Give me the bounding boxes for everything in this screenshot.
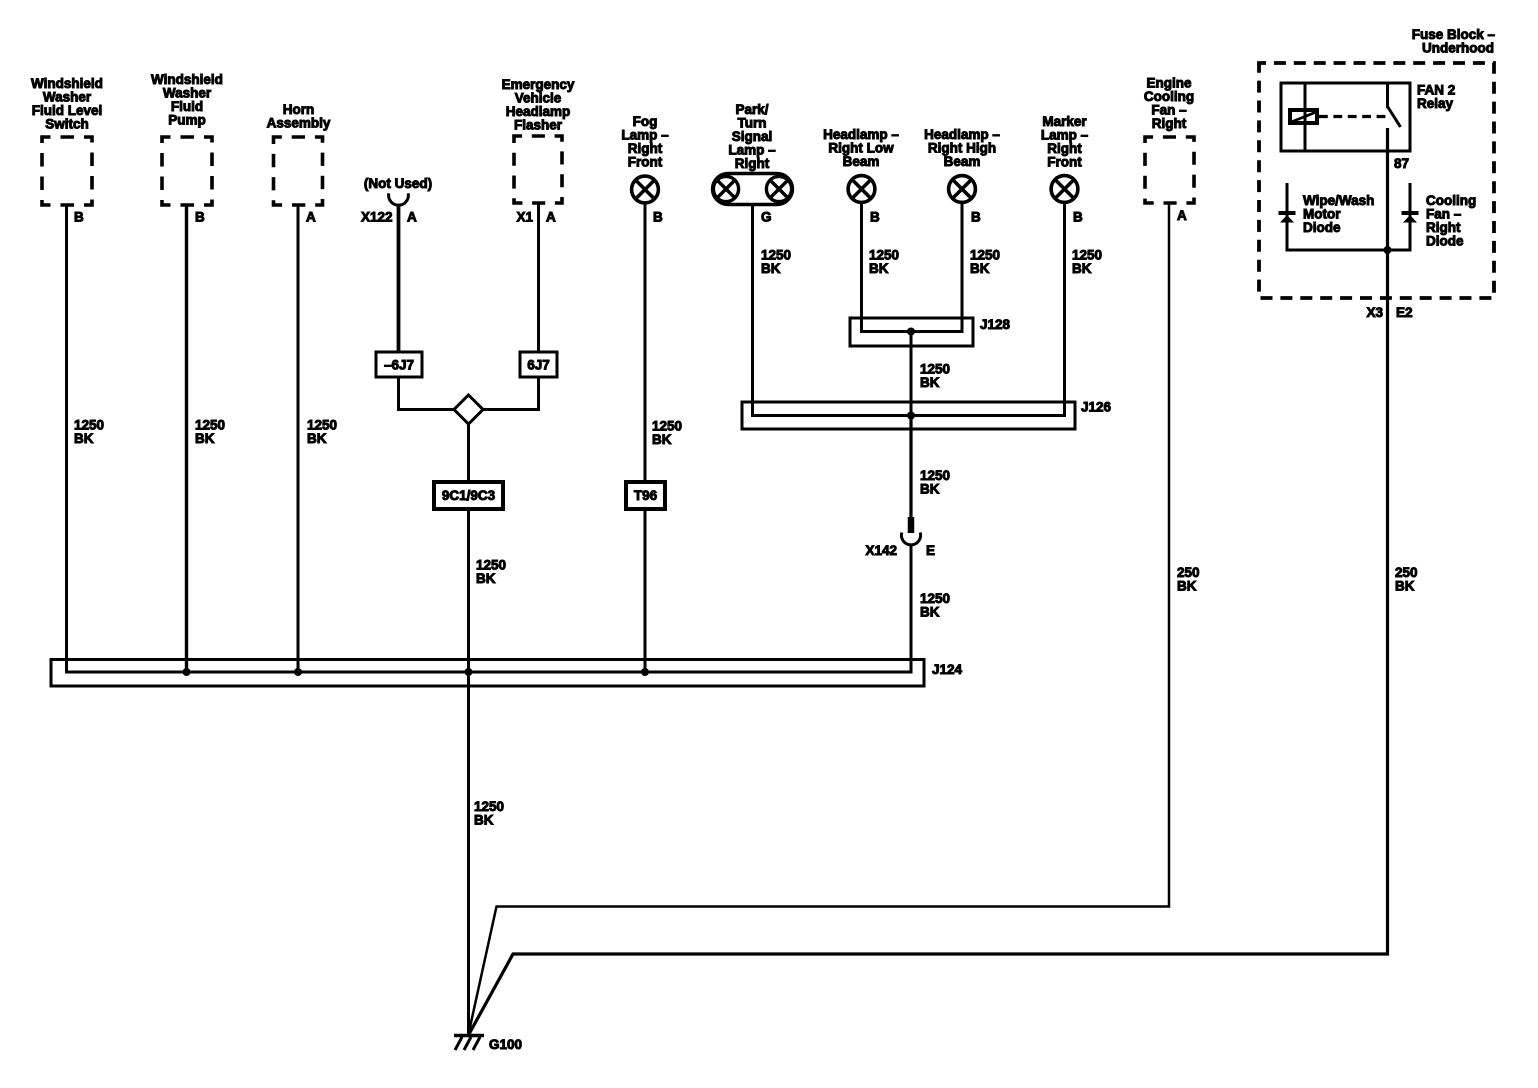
svg-text:B: B bbox=[870, 210, 880, 225]
svg-text:BK: BK bbox=[1395, 579, 1415, 594]
svg-text:Diode: Diode bbox=[1303, 220, 1341, 235]
connector X142 male blade bbox=[908, 517, 915, 533]
motor M2 Engine Cooling Fan box bbox=[1145, 137, 1194, 203]
svg-text:X3: X3 bbox=[1366, 305, 1383, 320]
svg-text:A: A bbox=[546, 210, 556, 225]
svg-text:6J7: 6J7 bbox=[527, 358, 550, 373]
lamp E4 Headlamp High Beam symbol bbox=[949, 176, 976, 203]
svg-text:A: A bbox=[306, 210, 316, 225]
switch S1 Windshield Washer Fluid Level Switch box bbox=[42, 137, 92, 205]
wire H1 pin A to J124 bbox=[297, 205, 300, 672]
connector X122 socket symbol bbox=[389, 193, 409, 205]
wire E2 pin G to J126 bbox=[751, 205, 754, 418]
svg-text:9C1/9C3: 9C1/9C3 bbox=[442, 488, 496, 503]
lamp E5 Marker Lamp symbol bbox=[1051, 176, 1078, 203]
svg-text:B: B bbox=[971, 210, 981, 225]
svg-text:G100: G100 bbox=[489, 1037, 522, 1052]
svg-text:(Not Used): (Not Used) bbox=[364, 176, 432, 191]
flasher U1 Emergency Vehicle Headlamp Flasher box bbox=[514, 136, 562, 203]
svg-text:B: B bbox=[1073, 210, 1083, 225]
motor M2 Engine Cooling Fan Right label bbox=[1144, 76, 1194, 132]
junction dot in J128 bbox=[907, 328, 915, 336]
motor M1 Windshield Washer Fluid Pump box bbox=[162, 137, 212, 205]
label FAN 2 Relay bbox=[1417, 83, 1455, 112]
wire E4 pin B to J128 bbox=[961, 204, 964, 334]
wire E3 pin B to J128 bbox=[860, 204, 863, 334]
wire E1 pin B to T96 bbox=[644, 204, 647, 482]
diode D1 symbol bbox=[1279, 211, 1296, 223]
svg-text:Diode: Diode bbox=[1426, 234, 1464, 249]
svg-text:BK: BK bbox=[652, 432, 672, 447]
svg-text:B: B bbox=[74, 210, 84, 225]
relay K1 coil bbox=[1290, 110, 1317, 123]
svg-text:Assembly: Assembly bbox=[267, 116, 331, 131]
junction dot J124 fog lamp bbox=[641, 668, 649, 676]
svg-text:Flasher: Flasher bbox=[514, 118, 563, 133]
svg-text:Right: Right bbox=[735, 156, 770, 171]
horn H1 Horn Assembly label bbox=[267, 102, 331, 131]
relay K1 FAN 2 Relay box bbox=[1281, 83, 1410, 151]
lamp E4 Headlamp Right High Beam label bbox=[924, 127, 1000, 169]
svg-text:B: B bbox=[195, 210, 205, 225]
connector X142 socket symbol bbox=[901, 533, 920, 545]
svg-text:X1: X1 bbox=[516, 210, 533, 225]
svg-text:BK: BK bbox=[920, 482, 940, 497]
wire label 1250 BK bbox=[474, 799, 504, 828]
svg-text:BK: BK bbox=[307, 431, 327, 446]
lamp E5 Marker Lamp Right Front label bbox=[1041, 114, 1089, 170]
lamp E3 Headlamp Low Beam symbol bbox=[848, 176, 875, 203]
wire 6J7 to diamond splice bbox=[482, 377, 539, 410]
label Cooling Fan Right Diode bbox=[1426, 193, 1476, 249]
svg-text:87: 87 bbox=[1394, 156, 1409, 171]
svg-text:BK: BK bbox=[474, 813, 494, 828]
svg-text:A: A bbox=[1177, 208, 1187, 223]
wire label 250 BK bbox=[1177, 565, 1200, 594]
svg-text:J126: J126 bbox=[1081, 400, 1112, 415]
junction dot in J126 bbox=[907, 412, 915, 420]
svg-text:BK: BK bbox=[74, 431, 94, 446]
ground G100 symbol bbox=[454, 1036, 484, 1051]
svg-text:Beam: Beam bbox=[843, 154, 880, 169]
svg-text:E2: E2 bbox=[1396, 305, 1413, 320]
wire label 1250 BK bbox=[195, 418, 225, 447]
wire label 1250 BK bbox=[869, 248, 899, 277]
wire label 1250 BK bbox=[74, 418, 104, 447]
svg-text:Front: Front bbox=[628, 155, 663, 170]
svg-text:A: A bbox=[407, 210, 417, 225]
junction dot at diode bus and relay wire bbox=[1384, 246, 1392, 254]
junction dot J124 horn bbox=[294, 668, 302, 676]
wire label 250 BK bbox=[1395, 565, 1418, 594]
motor M1 Windshield Washer Fluid Pump label bbox=[151, 72, 223, 128]
wire label 1250 BK bbox=[1072, 248, 1102, 277]
fuse block label Fuse Block - Underhood bbox=[1412, 27, 1496, 56]
fuse block underhood dashed enclosure bbox=[1259, 63, 1494, 298]
wire label 1250 BK bbox=[652, 419, 682, 448]
wire J128 to J126 bbox=[910, 332, 913, 418]
svg-text:Beam: Beam bbox=[944, 154, 981, 169]
flasher U1 Emergency Vehicle Headlamp Flasher label bbox=[502, 77, 575, 133]
svg-text:BK: BK bbox=[1072, 261, 1092, 276]
junction block J128 bbox=[850, 318, 973, 346]
svg-text:BK: BK bbox=[476, 571, 496, 586]
svg-text:T96: T96 bbox=[634, 488, 658, 503]
wire label 1250 BK bbox=[476, 558, 506, 587]
lamp E1 Fog Lamp Right Front label bbox=[621, 114, 669, 170]
svg-text:Switch: Switch bbox=[45, 117, 89, 132]
wire X122 pin A to splice -6J7 bbox=[397, 204, 401, 352]
relay K1 actuation dashed link bbox=[1319, 115, 1386, 118]
svg-text:–6J7: –6J7 bbox=[384, 358, 414, 373]
svg-text:Underhood: Underhood bbox=[1422, 41, 1494, 56]
diode D2 symbol bbox=[1402, 211, 1419, 223]
lamp E3 Headlamp Right Low Beam label bbox=[823, 127, 899, 169]
relay K1 internal divider bbox=[1304, 83, 1307, 151]
junction block J124 bbox=[51, 660, 924, 687]
splice T96 bbox=[626, 482, 665, 509]
wire 9C1/9C3 to J124 bbox=[467, 508, 470, 674]
switch S1 Windshield Washer Fluid Level Switch label bbox=[31, 76, 103, 132]
wire X142 pin E to J124 bbox=[910, 544, 913, 674]
svg-text:BK: BK bbox=[761, 261, 781, 276]
wire S1 pin B to J124 bbox=[65, 205, 68, 674]
horn H1 Horn Assembly box bbox=[274, 137, 323, 205]
lamp E1 Fog Lamp symbol bbox=[632, 176, 659, 203]
diode D2 Cooling Fan Right Diode lead bbox=[1409, 183, 1412, 250]
svg-text:BK: BK bbox=[970, 261, 990, 276]
svg-text:J128: J128 bbox=[980, 317, 1011, 332]
svg-text:Relay: Relay bbox=[1417, 96, 1454, 111]
wire J124 to ground G100 bbox=[467, 672, 470, 1036]
svg-text:BK: BK bbox=[920, 605, 940, 620]
wire M1 pin B to J124 bbox=[185, 205, 188, 672]
lamp E2 Park/Turn Signal Lamp Right label bbox=[728, 102, 776, 171]
wire T96 to J124 bbox=[644, 508, 647, 672]
svg-text:BK: BK bbox=[869, 261, 889, 276]
diamond splice node bbox=[454, 395, 483, 424]
svg-text:BK: BK bbox=[195, 431, 215, 446]
splice -6J7 bbox=[376, 352, 422, 377]
wire diode bus bbox=[1286, 249, 1412, 252]
relay K1 switch blade bbox=[1388, 107, 1401, 128]
svg-text:BK: BK bbox=[1177, 579, 1197, 594]
wire M2 pin A to ground G100 bbox=[469, 203, 1170, 1034]
wire label 1250 BK bbox=[761, 248, 791, 277]
svg-text:E: E bbox=[926, 543, 935, 558]
wire label 1250 BK bbox=[920, 362, 950, 391]
wire E5 pin B to J126 bbox=[1063, 204, 1066, 418]
wire diamond splice to 9C1/9C3 bbox=[467, 424, 470, 482]
label Wipe/Wash Motor Diode bbox=[1303, 193, 1374, 235]
diode D1 Wipe/Wash Motor Diode lead bbox=[1286, 183, 1289, 250]
wire relay pin 87 to ground G100 bbox=[469, 128, 1388, 1035]
svg-text:B: B bbox=[653, 210, 663, 225]
splice 9C1/9C3 bbox=[434, 482, 503, 509]
junction block J126 bbox=[742, 402, 1075, 429]
svg-text:X142: X142 bbox=[865, 543, 897, 558]
lamp E2 Park/Turn dual filament symbol bbox=[713, 174, 793, 205]
wire J126 to X142 bbox=[909, 416, 912, 519]
svg-text:J124: J124 bbox=[932, 662, 963, 677]
wire label 1250 BK bbox=[920, 591, 950, 620]
svg-text:G: G bbox=[761, 210, 772, 225]
splice 6J7 bbox=[520, 352, 557, 377]
relay K1 fixed contact bbox=[1386, 83, 1389, 108]
junction dot J124 washer pump bbox=[183, 668, 191, 676]
svg-text:Right: Right bbox=[1152, 116, 1187, 131]
svg-text:Pump: Pump bbox=[168, 113, 206, 128]
wire X1 pin A to splice 6J7 bbox=[537, 203, 540, 352]
wire label 1250 BK bbox=[307, 418, 337, 447]
wire label 1250 BK bbox=[970, 248, 1000, 277]
svg-text:X122: X122 bbox=[361, 210, 393, 225]
wire -6J7 to diamond splice bbox=[399, 377, 456, 410]
junction dot J124 splice 9C1 bbox=[465, 668, 473, 676]
wire label 1250 BK bbox=[920, 468, 950, 497]
svg-text:BK: BK bbox=[920, 375, 940, 390]
svg-text:Front: Front bbox=[1047, 155, 1082, 170]
